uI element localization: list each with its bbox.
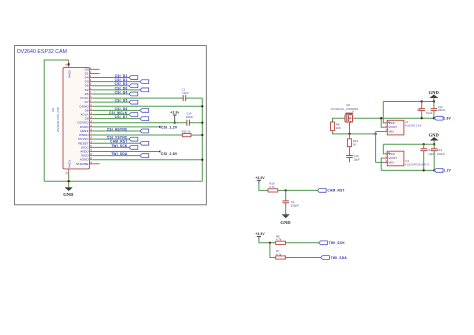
junction C12 bottom [423,169,425,171]
net label CSI_1.2V [92,125,178,129]
wire U3 VIN [376,161,385,163]
svg-text:U3: U3 [405,159,409,163]
svg-text:+3.3V: +3.3V [255,232,265,236]
wire pin 9 to net CSI_D5 [92,101,129,103]
wire pin 19 to net CAM_RST [92,142,140,144]
svg-text:GND: GND [429,132,440,137]
pin 22 SIOD [81,152,93,158]
svg-text:TWI_SDA: TWI_SDA [331,256,348,260]
transistor Q2 AO3401A [331,103,359,123]
wire R6 to TWI_SCK flag [286,242,319,244]
wire pin 3 to net CSI_D2 [92,77,129,79]
pin 1 D0 [85,66,93,72]
svg-text:VIN: VIN [389,130,394,134]
junction +3.3v tap [174,122,176,124]
svg-text:4.7k: 4.7k [276,252,282,256]
net flag CAM_RST [317,189,344,193]
svg-text:XC6204P282MR-G: XC6204P282MR-G [405,163,430,167]
wire bottom bus [44,180,202,182]
wire pin 13 to net CSI_D7 [92,118,140,120]
net label CSI_2.8V [92,150,178,156]
net flag 1.2V [434,169,451,173]
capacitor C12 [420,144,435,170]
wire +3.3V to R6 [259,239,276,243]
svg-text:XC6206 2.8V: XC6206 2.8V [405,123,422,127]
junction DGND/bus [201,105,203,107]
net flag TWI_SDA [321,256,348,260]
pin 16 HREF [80,127,92,133]
capacitor C13 [431,144,445,170]
wire R7 to TWI_SDA flag [286,257,321,259]
wire VIN vertical [375,132,377,163]
wire 1.2V output line [381,169,434,171]
pin 7 D6 [85,90,93,96]
regulator U3 XC6204 [384,151,429,167]
svg-text:C7: C7 [417,108,421,112]
sheet frame [15,46,207,205]
svg-text:VIN: VIN [389,160,394,164]
svg-text:GND: GND [429,90,440,95]
wire right vertical gnd bus [201,98,203,181]
svg-text:100pF: 100pF [185,115,193,119]
pin 25 PAD1 bottom [64,160,71,175]
net flag CSI_D1 [115,78,149,84]
wire U3 VOUT to 1.2V line [381,158,384,170]
junction drain [348,133,350,135]
svg-text:10K: 10K [336,126,341,130]
wire U1 VIN [376,131,385,133]
junction C14/bus [201,122,203,124]
svg-text:OV2640 ESP32 CAM: OV2640 ESP32 CAM [17,49,67,55]
junction C13 bottom [433,169,435,171]
wire PAD2 to left rail [44,60,68,181]
svg-text:1.2V: 1.2V [443,169,451,173]
net flag TWI_SDA [111,152,149,158]
pin 11 D8 [85,107,93,113]
svg-text:R15 1k: R15 1k [182,129,191,133]
wire pin 16 to net CSI_HSYNC [92,130,140,132]
junction VOUT/2.8V [380,117,382,119]
junction rail/gnd [433,100,435,102]
wire +3.3V to R16 [259,184,268,190]
wire 2.8V output line [353,117,434,119]
pin 10 DGND [80,103,93,109]
pin 15 DVDD [80,123,93,129]
svg-text:+3.3V: +3.3V [255,176,265,180]
svg-text:4.7k: 4.7k [269,185,275,189]
junction VIN rail [374,133,376,135]
capacitor C15 [346,147,360,163]
net flag CSI_VSYNC [107,136,138,142]
wire pin 4 to net CSI_D1 [92,81,140,83]
wire pin 12 to net CSI_MCLK [92,114,129,116]
net flag CSI_D7 [115,115,149,121]
svg-text:PAD2: PAD2 [67,70,71,78]
wire gate to R8 [333,118,345,122]
net flag 2.8V [434,116,451,120]
svg-text:AO3401A_C306862: AO3401A_C306862 [331,107,359,111]
pin 6 D2 [85,86,93,92]
svg-text:CSI_HSYNC: CSI_HSYNC [107,127,128,131]
net flag CSI_D2 [115,74,138,80]
wire PAD1 to bus [68,174,70,187]
net flag TWI_SCK [319,241,346,245]
net flag CSI_HSYNC [107,127,149,133]
resistor R8 [331,122,341,131]
pin 3 D4 [85,74,93,80]
svg-text:OV2640 FPC 24P: OV2640 FPC 24P [56,107,60,132]
junction AGND/bus [201,159,203,161]
junction C2 tap [285,189,287,191]
regulator U1 XC6206 [384,120,421,135]
resistor R7 [276,249,286,259]
svg-text:25: 25 [64,171,68,174]
junction rail/C7 [421,100,423,102]
resistor R14 [347,134,358,147]
resistor R16 [268,182,278,193]
junction C7 bottom [421,117,423,119]
capacitor C11 [431,102,446,119]
net flag CAM_RST [110,140,149,146]
svg-text:1K: 1K [353,142,357,146]
pin 9 D7 [85,99,93,105]
junction C11 bottom [433,117,435,119]
resistor R15 [92,129,202,136]
net flag CSI_D0 [115,86,149,92]
wire R16 to CAM_RST flag [278,189,318,191]
capacitor C7 [417,102,433,119]
junction R15/bus [201,134,203,136]
svg-text:TWI_SDA: TWI_SDA [111,152,128,156]
IC U8 body [63,67,90,168]
pin 26 PAD2 top [64,60,71,78]
wire drain junction to VIN rail [350,133,376,135]
wire gnd rail lower [383,143,434,145]
wire gnd rail upper [383,101,434,103]
wire pin 7 to net CSI_D4 [92,93,129,95]
power flag +3.3v [170,111,179,123]
ground GND (camera) [63,188,74,197]
pin 19 RESET [78,140,92,146]
wire U1 VOUT to 2.8V line [381,118,384,127]
net flag CSI_D6 [115,107,149,113]
svg-text:10µF: 10µF [353,157,360,161]
pin 18 VSYNC [78,136,93,142]
junction R7 branch [269,242,271,244]
svg-text:2.8V: 2.8V [443,117,451,121]
wire pin 6 to net CSI_D0 [92,89,140,91]
net flag TWI_SCK [111,144,138,150]
pin 21 AVDD [80,148,92,154]
net flag CSI_D5 [115,99,138,105]
svg-text:+3.3v: +3.3v [170,111,179,115]
svg-text:GND: GND [280,220,291,225]
svg-text:10µF: 10µF [182,91,189,95]
svg-text:4.7k: 4.7k [276,238,282,242]
junction PAD1/bus [68,180,70,182]
pin 2 D1 [85,70,93,76]
no-connect stub pin 1 [92,68,99,70]
pin 13 D9 [85,115,93,121]
ground GND (lower regulator) [429,132,440,144]
svg-text:CSI_D7: CSI_D7 [115,115,128,119]
svg-text:100nF: 100nF [437,108,445,112]
svg-text:PAD1: PAD1 [67,160,71,168]
wire pin 20 to net TWI_SCK [92,146,129,148]
wire U1 VSS to gnd rail [382,102,385,124]
power flag +3.3V (TWI) [255,232,265,239]
pin 24 STROBE [76,160,93,166]
svg-text:TWI_SCK: TWI_SCK [111,144,128,148]
svg-text:100nF: 100nF [437,152,445,156]
net flag CSI_D3 [115,82,138,88]
capacitor C14 [92,112,202,126]
pin 14 DOVDD [78,119,93,125]
wire AGND to bus [92,159,202,161]
pin 23 AGND [80,156,93,162]
net flag CSI_D4 [115,90,138,96]
ground GND (C2) [280,215,291,226]
wire pin 18 to net CSI_VSYNC [92,138,129,140]
pin 17 PWDN [79,132,92,138]
net flag CSI_MCLK [109,111,138,117]
wire U3 VSS to gnd rail [382,144,385,154]
wire pin 22 to net TWI_SDA [92,155,140,157]
svg-text:STROBE: STROBE [76,162,89,166]
pin 20 SIOC [81,144,93,150]
wire pin 5 to net CSI_D3 [92,85,129,87]
wire pin 11 to net CSI_D6 [92,109,140,111]
pin 12 XCLK [81,111,93,117]
capacitor C2 [282,190,299,214]
pin 8 PCLK [81,95,93,101]
svg-text:100pF: 100pF [291,204,299,208]
svg-text:10µF: 10µF [426,111,433,115]
capacitor C1 [92,88,202,102]
pin 4 D3 [85,78,93,84]
svg-text:CSI_D5: CSI_D5 [115,99,128,103]
no-connect stub pin 2 [92,72,99,74]
junction rail/C12 [423,143,425,145]
svg-text:CAM_RST: CAM_RST [327,189,344,193]
resistor R6 [276,234,286,244]
pin 5 D5 [85,82,93,88]
svg-text:CSI_D4: CSI_D4 [115,90,128,94]
wire DGND to bus [92,105,202,107]
wire branch down to R7 [270,243,276,258]
junction rail/gnd2 [433,143,435,145]
wire R8 bottom to drain junction [333,131,350,134]
no-connect stub pin 24 [92,163,99,165]
svg-text:GND: GND [63,192,74,197]
svg-text:TWI_SCK: TWI_SCK [329,241,346,245]
wire drain down [349,123,351,134]
svg-text:CSI_1.2V: CSI_1.2V [161,125,178,129]
power flag +3.3V (CAM_RST) [255,176,265,184]
ground GND (upper regulator) [429,90,440,102]
svg-text:CSI_2.8V: CSI_2.8V [161,152,178,156]
svg-text:U8: U8 [51,108,55,112]
